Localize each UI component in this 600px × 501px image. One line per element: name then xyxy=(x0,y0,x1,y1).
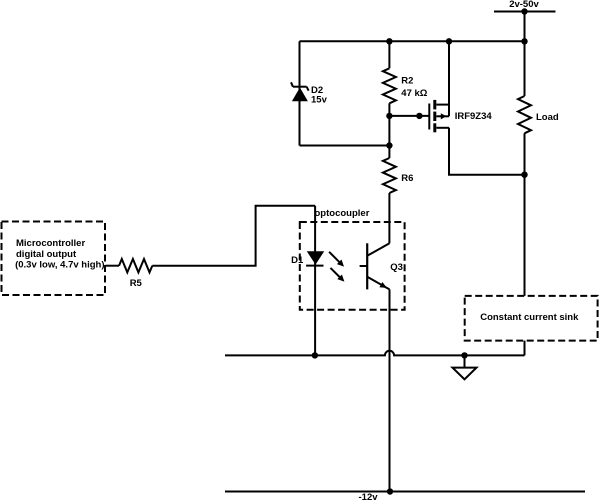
svg-text:Q3: Q3 xyxy=(390,262,403,273)
svg-text:D1: D1 xyxy=(291,255,304,266)
svg-text:Load: Load xyxy=(536,112,559,123)
svg-text:IRF9Z34: IRF9Z34 xyxy=(455,111,493,122)
svg-text:(0.3v low, 4.7v high): (0.3v low, 4.7v high) xyxy=(15,260,104,271)
svg-text:-12v: -12v xyxy=(359,492,379,501)
svg-text:R2: R2 xyxy=(401,75,413,86)
svg-text:optocoupler: optocoupler xyxy=(315,208,370,219)
svg-text:Constant current sink: Constant current sink xyxy=(480,312,579,323)
svg-text:R6: R6 xyxy=(401,173,413,184)
svg-text:R5: R5 xyxy=(130,278,143,289)
svg-text:47 kΩ: 47 kΩ xyxy=(401,88,427,99)
svg-text:Microcontroller: Microcontroller xyxy=(16,238,85,249)
svg-text:digital output: digital output xyxy=(16,249,77,260)
svg-text:2v-50v: 2v-50v xyxy=(509,0,539,10)
svg-text:15v: 15v xyxy=(311,95,328,106)
